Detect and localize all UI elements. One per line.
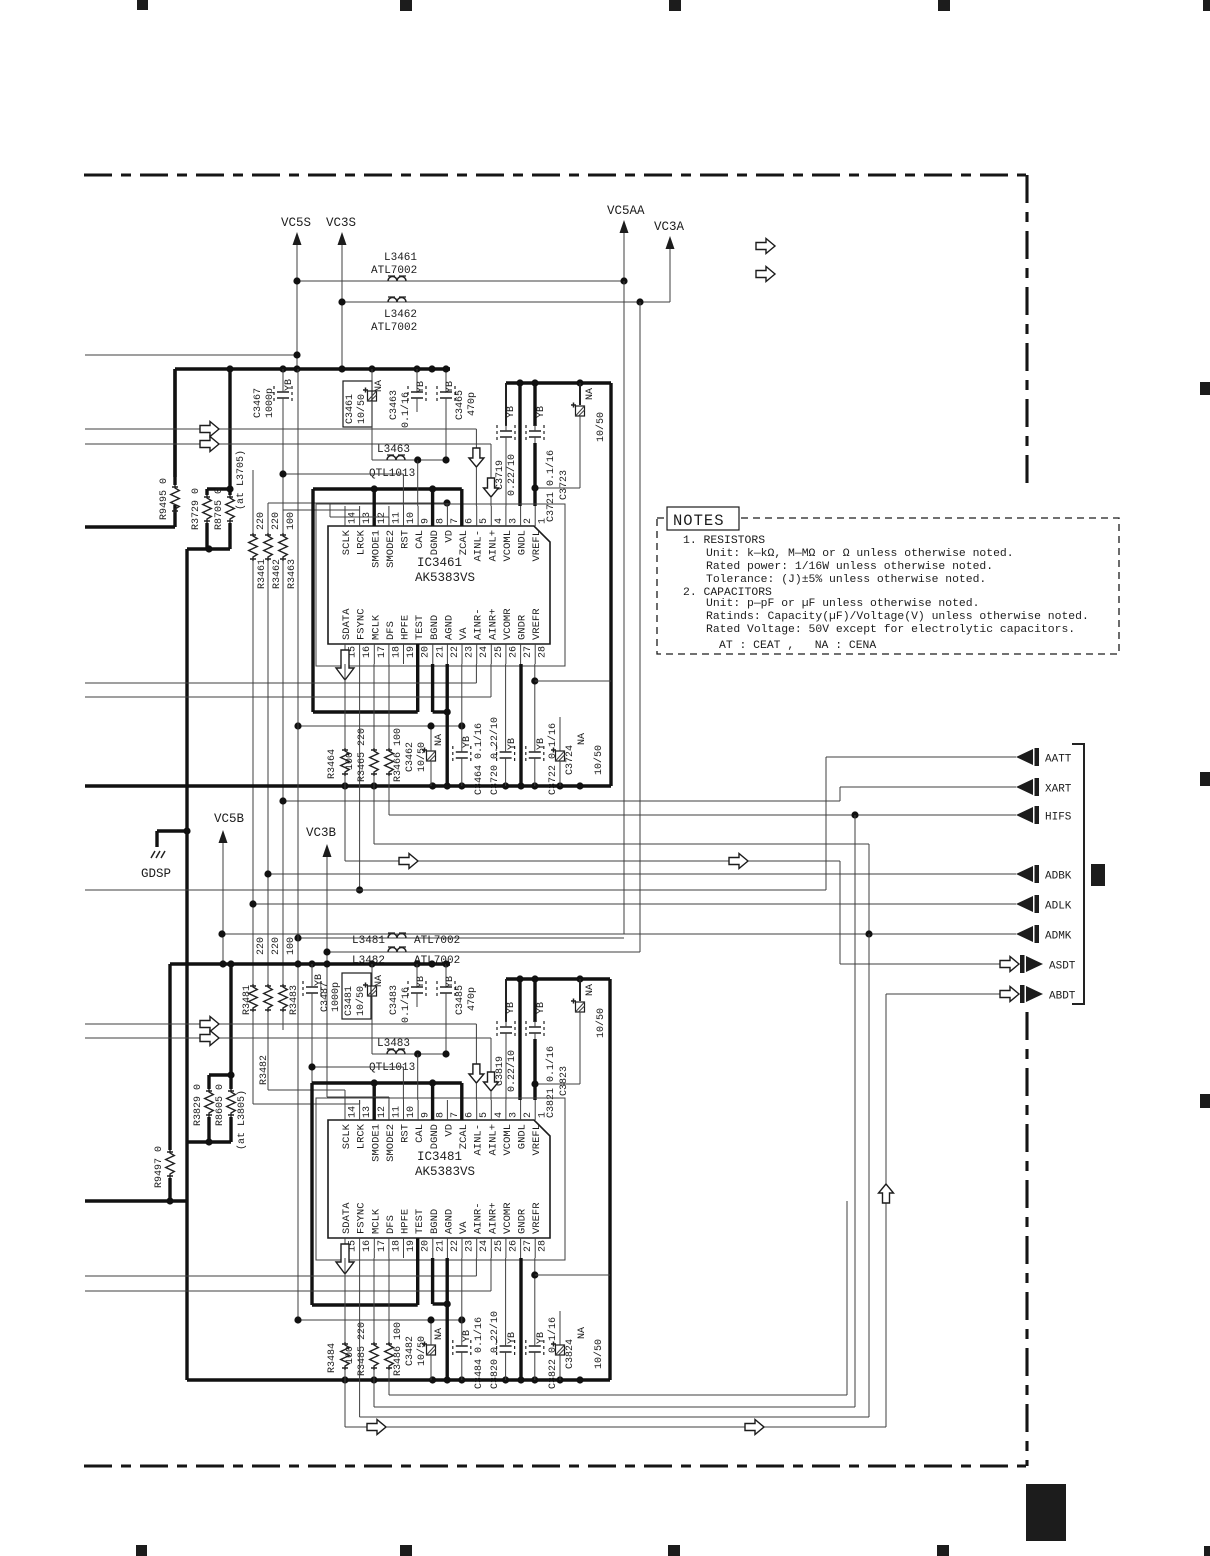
svg-text:YB: YB — [284, 379, 295, 391]
capacitor C3819 0.22/10 YB — [505, 979, 507, 1022]
inductor L3483 QTL1013 — [372, 1053, 446, 1055]
svg-text:C3824: C3824 — [565, 1339, 576, 1369]
IC3481 pin 11 SMODE2 — [388, 1100, 390, 1120]
svg-text:FSYNC: FSYNC — [356, 1202, 368, 1234]
svg-text:VCOMR: VCOMR — [502, 608, 514, 640]
svg-text:23: 23 — [465, 646, 476, 658]
svg-text:C3461: C3461 — [345, 394, 356, 424]
capacitor C3464 0.1/16 YB — [461, 664, 463, 746]
IC3481 pin 23 VA — [461, 1238, 463, 1258]
svg-text:ATL7002: ATL7002 — [414, 935, 460, 947]
crop mark top 3 — [669, 0, 681, 11]
svg-text:6: 6 — [465, 518, 476, 524]
svg-text:10/50: 10/50 — [593, 745, 605, 775]
svg-text:R3463: R3463 — [287, 559, 298, 589]
wire C3721/C3723 join — [535, 487, 580, 489]
flow arrow bottom 2 — [745, 1420, 764, 1435]
connector ADLK — [1016, 896, 1033, 912]
frame border right lower — [1025, 1012, 1028, 1466]
svg-text:C3823: C3823 — [559, 1066, 570, 1096]
svg-text:ATL7002: ATL7002 — [371, 265, 417, 277]
svg-text:TEST: TEST — [414, 615, 426, 640]
flow arrow bottom 1 — [367, 1420, 386, 1435]
svg-text:ADMK: ADMK — [1045, 931, 1072, 943]
wire ADMK run — [222, 933, 1016, 935]
svg-text:Rated power: 1/16W unless othe: Rated power: 1/16W unless otherwise note… — [706, 561, 993, 573]
IC3481 pin 21 BGND — [432, 1238, 434, 1258]
svg-text:27: 27 — [523, 1240, 534, 1252]
svg-text:21: 21 — [435, 1240, 446, 1252]
connector ASDT — [1020, 955, 1025, 973]
inductor L3481 ATL7002 — [298, 937, 624, 939]
IC3461 pin 22 AGND — [446, 644, 448, 664]
capacitor C3723 10/50 NA electrolytic — [579, 383, 581, 405]
svg-text:5: 5 — [479, 1112, 490, 1118]
svg-text:12: 12 — [377, 512, 388, 524]
svg-text:Unit: k—kΩ, M—MΩ or Ω unless o: Unit: k—kΩ, M—MΩ or Ω unless otherwise n… — [706, 548, 1014, 560]
IC3461 pin 19 HPFE — [403, 644, 405, 664]
capacitor C3481 10/50 NA — [342, 973, 371, 1019]
svg-text:XART: XART — [1045, 784, 1072, 796]
svg-text:L3462: L3462 — [384, 309, 417, 321]
wire SMODE1 drop lower — [373, 1083, 376, 1120]
svg-text:VA: VA — [458, 627, 470, 640]
wire bottom run 3 — [360, 1416, 869, 1418]
svg-text:R8605 0: R8605 0 — [215, 1084, 226, 1126]
svg-text:20: 20 — [421, 646, 432, 658]
connector AATT — [1016, 749, 1033, 765]
svg-text:GNDL: GNDL — [517, 530, 529, 555]
svg-text:1000p: 1000p — [331, 982, 342, 1012]
svg-text:R3485 220: R3485 220 — [357, 1322, 368, 1376]
svg-text:10: 10 — [406, 1106, 417, 1118]
IC3481 pin 1 VREFL — [534, 1100, 536, 1120]
svg-text:R3483: R3483 — [289, 985, 300, 1015]
svg-text:220: 220 — [256, 937, 267, 955]
IC3461 pin 20 TEST — [417, 644, 419, 664]
svg-text:1000p: 1000p — [265, 388, 276, 418]
wire XART — [840, 786, 1016, 788]
svg-text:AINL+: AINL+ — [487, 530, 499, 562]
svg-text:R3484: R3484 — [327, 1343, 338, 1373]
svg-text:12: 12 — [377, 1106, 388, 1118]
svg-text:11: 11 — [391, 512, 402, 524]
svg-text:GNDR: GNDR — [517, 1208, 529, 1234]
svg-text:23: 23 — [465, 1240, 476, 1252]
svg-text:10/50: 10/50 — [356, 394, 368, 424]
svg-text:Ratinds: Capacity(µF)/Voltage(: Ratinds: Capacity(µF)/Voltage(V) unless … — [706, 611, 1089, 623]
svg-text:AINR+: AINR+ — [487, 608, 499, 640]
svg-text:R3466 100: R3466 100 — [393, 728, 404, 782]
wire C3821/C3823 join — [535, 1083, 580, 1085]
svg-text:RST: RST — [400, 1124, 412, 1143]
svg-text:Rated Voltage: 50V except for: Rated Voltage: 50V except for electrolyt… — [706, 624, 1075, 636]
svg-text:28: 28 — [538, 646, 549, 658]
resistor R9497 0 — [166, 1150, 175, 1178]
IC3481 pin 10 RST — [403, 1100, 405, 1120]
wire lower bar of R3729/R8705 — [187, 547, 230, 550]
svg-text:5: 5 — [479, 518, 490, 524]
IC3481 pin 17 MCLK — [373, 1238, 375, 1258]
crop mark right 3 — [1200, 1094, 1210, 1108]
svg-text:R3461: R3461 — [257, 559, 268, 589]
svg-text:CAL: CAL — [414, 530, 426, 549]
connector bracket right — [1072, 744, 1084, 1004]
resistor R3829 0 — [209, 1073, 231, 1076]
capacitor C3485 470p YB — [445, 964, 447, 981]
capacitor C3462 10/50 NA electrolytic — [427, 751, 436, 761]
svg-text:DGND: DGND — [429, 1124, 441, 1149]
svg-text:AINL-: AINL- — [473, 530, 485, 562]
connector HIFS — [1016, 807, 1033, 823]
svg-text:10/50: 10/50 — [416, 1336, 428, 1366]
svg-text:4: 4 — [494, 1112, 505, 1118]
svg-text:QTL1013: QTL1013 — [369, 1062, 415, 1074]
svg-text:C3485: C3485 — [455, 985, 466, 1015]
wire AGND thick — [446, 664, 449, 786]
IC3481 pin 16 FSYNC — [359, 1238, 361, 1258]
svg-text:C3467: C3467 — [253, 388, 264, 418]
svg-text:RST: RST — [400, 530, 412, 549]
resistor R8705 0 — [226, 485, 233, 492]
flow arrow AINL- down lower — [469, 1064, 484, 1083]
svg-text:16: 16 — [362, 646, 373, 658]
wire upper supply bus — [175, 367, 450, 370]
svg-text:R3462: R3462 — [272, 559, 283, 589]
svg-text:AINL-: AINL- — [473, 1124, 485, 1156]
svg-text:19: 19 — [406, 646, 417, 658]
node GNDL tie — [518, 383, 521, 506]
svg-text:YB: YB — [536, 1002, 547, 1014]
svg-text:VD: VD — [443, 530, 455, 543]
svg-text:100: 100 — [345, 1346, 356, 1364]
wire GNDR thick — [519, 664, 522, 786]
svg-text:NA: NA — [585, 388, 596, 400]
flow arrow top right 2 — [756, 267, 775, 282]
IC3461 pin 3 VCOML — [505, 506, 507, 526]
IC3461 module outline box — [316, 504, 565, 666]
wire ABDT drop — [885, 994, 887, 1427]
IC3461 pin 4 AINL+ — [490, 506, 492, 526]
IC3461 pin 21 BGND — [432, 644, 434, 664]
svg-text:9: 9 — [421, 518, 432, 524]
svg-text:VREFR: VREFR — [531, 608, 543, 640]
crop mark right 1 — [1200, 382, 1210, 395]
svg-text:20: 20 — [421, 1240, 432, 1252]
wire HIFS run — [389, 814, 1016, 816]
svg-text:VC5AA: VC5AA — [607, 204, 645, 218]
node VC5AA rail down — [623, 281, 625, 934]
svg-text:10/50: 10/50 — [593, 1339, 605, 1369]
svg-text:VREFR: VREFR — [531, 1202, 543, 1234]
IC3481 pin 28 VREFR — [534, 1238, 536, 1258]
capacitor C3820 0.22/10 YB — [505, 1258, 507, 1340]
svg-text:ZCAL: ZCAL — [458, 1124, 470, 1149]
svg-text:0.22/10: 0.22/10 — [506, 1050, 518, 1092]
svg-text:AATT: AATT — [1045, 754, 1072, 766]
large registration blob bottom right — [1026, 1484, 1066, 1541]
IC3481 pin 26 VCOMR — [505, 1238, 507, 1258]
crop mark top 1 — [137, 0, 148, 10]
wire analog rail right lower — [608, 979, 611, 1380]
svg-text:3: 3 — [508, 518, 519, 524]
svg-text:NOTES: NOTES — [673, 512, 725, 530]
wire AATT — [826, 756, 1016, 758]
wire ASDT — [840, 963, 1000, 965]
svg-text:3: 3 — [508, 1112, 519, 1118]
wire SMODE1 drop — [373, 489, 376, 526]
svg-text:CAL: CAL — [414, 1124, 426, 1143]
IC3461 pin 2 GNDL — [520, 506, 522, 526]
svg-text:SDATA: SDATA — [341, 1202, 353, 1234]
svg-text:YB: YB — [507, 1332, 518, 1344]
svg-text:C3481: C3481 — [344, 986, 355, 1016]
wire analog rail right — [609, 383, 612, 786]
capacitor C3824 10/50 NA electrolytic — [559, 1311, 561, 1345]
IC3461 pin 10 RST — [403, 506, 405, 526]
capacitor C3720 0.22/10 YB — [505, 664, 507, 746]
resistor R3484 100 — [344, 1258, 346, 1342]
flow arrow ABDT up — [879, 1184, 894, 1203]
IC3461 pin 26 VCOMR — [505, 644, 507, 664]
svg-text:NA: NA — [374, 975, 385, 987]
svg-text:LRCK: LRCK — [356, 529, 368, 555]
wire long thick vertical bus left — [185, 549, 188, 1380]
svg-text:C3465: C3465 — [455, 390, 466, 420]
wire IC3481 ground bus — [187, 1378, 610, 1381]
svg-text:24: 24 — [479, 646, 490, 658]
resistor R3729 0 — [207, 487, 230, 490]
svg-text:R3486 100: R3486 100 — [393, 1322, 404, 1376]
svg-text:22: 22 — [450, 646, 461, 658]
svg-text:Unit: p—pF or µF unless otherw: Unit: p—pF or µF unless otherwise noted. — [706, 598, 979, 610]
wire ASDT run — [345, 860, 840, 862]
wire lower bar of R3829/R8605 — [187, 1140, 231, 1143]
IC3461 pin 13 LRCK — [359, 506, 361, 526]
resistor R3464 100 — [344, 664, 346, 748]
svg-text:R3465 220: R3465 220 — [357, 728, 368, 782]
crop mark bottom 4 — [937, 1545, 949, 1556]
svg-text:YB: YB — [507, 738, 518, 750]
crop mark top 4 — [938, 0, 950, 11]
IC3461 pin 1 VREFL — [534, 506, 536, 526]
svg-text:YB: YB — [462, 1330, 473, 1342]
svg-text:26: 26 — [508, 1240, 519, 1252]
flow arrow below SDATA IC3481 — [336, 1244, 354, 1274]
IC3481 pin 15 SDATA — [344, 1238, 346, 1258]
IC3461 pin 11 SMODE2 — [388, 506, 390, 526]
resistor R3461 220 — [252, 470, 254, 533]
wire LRCK feed lower — [253, 1103, 360, 1105]
svg-text:YB: YB — [462, 736, 473, 748]
svg-text:YB: YB — [536, 738, 547, 750]
svg-text:C3719: C3719 — [495, 460, 506, 490]
svg-text:10/50: 10/50 — [595, 1008, 607, 1038]
flow arrow AINL+ lower — [200, 1031, 219, 1046]
svg-text:R3829 0: R3829 0 — [193, 1084, 204, 1126]
crop mark bottom 1 — [136, 1545, 147, 1556]
svg-text:C3464 0.1/16: C3464 0.1/16 — [473, 723, 485, 795]
IC3461 pin 18 DFS — [388, 644, 390, 664]
svg-text:24: 24 — [479, 1240, 490, 1252]
resistor R3463 100 — [282, 444, 284, 533]
crop mark right 2 — [1200, 772, 1210, 786]
svg-text:1. RESISTORS: 1. RESISTORS — [683, 535, 765, 547]
capacitor C3482 10/50 NA electrolytic — [427, 1345, 436, 1355]
svg-text:R9495 0: R9495 0 — [159, 478, 170, 520]
svg-text:R3729 0: R3729 0 — [191, 488, 202, 530]
svg-text:27: 27 — [523, 646, 534, 658]
wire RST feed — [283, 473, 403, 475]
IC3461 pin 14 SCLK — [344, 506, 346, 526]
flow arrow AINL+ — [200, 437, 219, 452]
svg-text:R9497 0: R9497 0 — [154, 1146, 165, 1188]
resistor R9495 0 — [171, 485, 180, 513]
svg-text:0.1/16: 0.1/16 — [400, 392, 412, 428]
svg-text:100: 100 — [286, 512, 297, 530]
svg-text:VCOMR: VCOMR — [502, 1202, 514, 1234]
wire IC3461 ground bus — [85, 784, 611, 787]
svg-text:SMODE1: SMODE1 — [370, 530, 382, 568]
svg-text:SMODE2: SMODE2 — [385, 1124, 397, 1162]
wire CAL drop lower — [417, 1054, 419, 1100]
svg-text:AINR-: AINR- — [473, 1202, 485, 1234]
wire bottom run 1 — [389, 1394, 847, 1396]
svg-text:0.22/10: 0.22/10 — [506, 454, 518, 496]
svg-text:AGND: AGND — [443, 615, 455, 640]
svg-text:FSYNC: FSYNC — [356, 608, 368, 640]
svg-text:26: 26 — [508, 646, 519, 658]
svg-text:HPFE: HPFE — [400, 1209, 412, 1234]
svg-text:8: 8 — [435, 518, 446, 524]
wire thick left entry upper — [85, 525, 175, 528]
svg-text:ZCAL: ZCAL — [458, 530, 470, 555]
svg-text:9: 9 — [421, 1112, 432, 1118]
IC3461 pin 17 MCLK — [373, 644, 375, 664]
svg-text:BGND: BGND — [429, 1209, 441, 1234]
svg-text:GDSP: GDSP — [141, 867, 171, 881]
svg-text:YB: YB — [506, 406, 517, 418]
svg-text:VD: VD — [443, 1124, 455, 1137]
wire HIFS extension down — [854, 815, 856, 1407]
IC3481 pin 8 DGND — [432, 1100, 434, 1120]
inductor L3461 ATL7002 — [388, 277, 406, 282]
svg-text:YB: YB — [416, 381, 427, 393]
svg-text:YB: YB — [536, 406, 547, 418]
IC3481 pin 24 AINR- — [476, 1238, 478, 1258]
connector ABDT — [1020, 985, 1025, 1003]
flow arrow ASDT — [1000, 957, 1019, 972]
ground GDSP — [157, 829, 187, 832]
wire ADBK run — [268, 873, 1016, 875]
svg-text:VCOML: VCOML — [502, 1124, 514, 1156]
wire AINR+ input lower — [85, 1290, 491, 1292]
svg-text:1: 1 — [538, 1112, 549, 1118]
IC3461 pin 24 AINR- — [476, 644, 478, 664]
wire AINR+ input — [85, 696, 491, 698]
svg-text:VC3A: VC3A — [654, 220, 685, 234]
wire VC3S rail to VC3A — [342, 301, 670, 303]
resistor R3462 220 — [267, 503, 269, 533]
svg-text:ADLK: ADLK — [1045, 901, 1072, 913]
wire BGND join — [431, 664, 434, 712]
IC3481 pin 6 ZCAL — [461, 1100, 463, 1120]
svg-text:470p: 470p — [467, 392, 478, 416]
svg-text:6: 6 — [465, 1112, 476, 1118]
flow arrow ABDT — [1000, 987, 1019, 1002]
svg-text:NA: NA — [577, 733, 588, 745]
svg-text:C3721 0.1/16: C3721 0.1/16 — [545, 450, 557, 522]
capacitor C3463 0.1/16 YB — [416, 369, 418, 386]
crop mark bottom 5 — [1204, 1546, 1210, 1556]
resistor R8605 0 — [227, 1071, 234, 1078]
svg-text:YB: YB — [314, 974, 325, 986]
IC3481 pin 25 AINR+ — [490, 1238, 492, 1258]
IC3461 pin 16 FSYNC — [359, 644, 361, 664]
svg-text:11: 11 — [391, 1106, 402, 1118]
svg-text:BGND: BGND — [429, 615, 441, 640]
svg-text:SDATA: SDATA — [341, 608, 353, 640]
svg-text:R3481: R3481 — [242, 985, 253, 1015]
svg-text:AT : CEAT , NA : CENA: AT : CEAT , NA : CENA — [719, 640, 876, 652]
wire SCLK feed lower — [268, 1089, 345, 1091]
capacitor C3719 0.22/10 YB — [505, 383, 507, 426]
svg-text:VC5B: VC5B — [214, 812, 245, 826]
svg-text:14: 14 — [348, 1106, 359, 1118]
svg-text:18: 18 — [391, 646, 402, 658]
svg-text:SMODE1: SMODE1 — [370, 1124, 382, 1162]
svg-text:2: 2 — [523, 518, 534, 524]
svg-text:AK5383VS: AK5383VS — [415, 1165, 475, 1179]
flow arrow below SDATA IC3461 — [336, 650, 354, 680]
svg-text:220: 220 — [271, 937, 282, 955]
op-amp IC3461 AK5383VS body — [328, 526, 550, 644]
wire FSYNC through lower — [359, 1258, 361, 1417]
capacitor C3722 0.1/16 YB — [534, 664, 536, 746]
capacitor C3724 10/50 NA electrolytic — [559, 717, 561, 751]
IC3461 pin 9 CAL — [417, 506, 419, 526]
svg-text:25: 25 — [494, 1240, 505, 1252]
IC3481 module outline box — [316, 1098, 565, 1260]
svg-text:L3483: L3483 — [377, 1038, 410, 1050]
svg-text:NA: NA — [585, 984, 596, 996]
svg-text:L3463: L3463 — [377, 444, 410, 456]
svg-text:LRCK: LRCK — [356, 1123, 368, 1149]
svg-text:NA: NA — [434, 1328, 445, 1340]
flow arrow AINL- down — [469, 448, 484, 467]
capacitor C3822 0.1/16 YB — [534, 1258, 536, 1340]
IC3481 pin 12 SMODE1 — [373, 1100, 375, 1120]
wire ADMK extension down — [868, 934, 870, 1417]
svg-text:VC3B: VC3B — [306, 826, 337, 840]
svg-text:13: 13 — [362, 512, 373, 524]
node GNDL tie lower — [518, 979, 521, 1100]
svg-text:C3463: C3463 — [389, 390, 400, 420]
svg-text:L3481: L3481 — [352, 935, 385, 947]
wire BGND join lower — [431, 1258, 434, 1304]
resistor R3486 100 — [388, 1258, 390, 1342]
svg-text:HIFS: HIFS — [1045, 812, 1072, 824]
svg-text:100: 100 — [286, 937, 297, 955]
IC3461 pin 25 AINR+ — [490, 644, 492, 664]
IC3461 pin 12 SMODE1 — [373, 506, 375, 526]
svg-text:C3724: C3724 — [565, 745, 576, 775]
capacitor C3483 0.1/16 YB — [416, 964, 418, 981]
IC3481 pin 27 GNDR — [520, 1238, 522, 1258]
registration mark near ADBK — [1091, 864, 1105, 886]
wire SMODE2 feed lower — [327, 1096, 389, 1098]
inductor L3462 ATL7002 — [388, 298, 406, 303]
